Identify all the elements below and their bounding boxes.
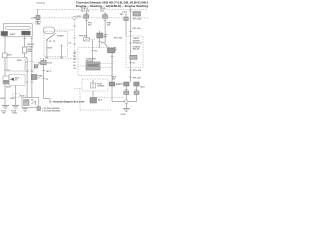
wire into fuse A [85,12,87,15]
starter assembly box [22,98,39,108]
svg-text:SW: SW [103,36,106,38]
relay dashed outputs [100,63,112,65]
ignition run wire column [43,59,45,99]
svg-text:LINK: LINK [31,17,36,19]
fuse TBC drop [125,13,127,36]
ground G102 [12,104,19,106]
battery symbol [6,26,31,29]
splice circle G [125,100,129,104]
dashed wires from PCM [79,91,81,110]
fuse A body [84,15,89,18]
svg-text:BLK: BLK [1,98,6,100]
relay coil wire in [92,40,94,62]
svg-text:YEL 5: YEL 5 [46,71,53,73]
connector box right top [133,12,141,17]
solenoid coil [24,100,30,106]
splice S235 [73,16,76,19]
inline connector gray [41,61,46,65]
switch exit wires [46,41,48,59]
wire: engine block ground leg [15,86,17,106]
svg-text:= W/ GAS ENGINE: = W/ GAS ENGINE [42,109,61,112]
ignition switch box [44,32,68,57]
bus: dashed hot-in-start line B [40,17,148,19]
ground G103 [123,107,130,109]
connector blob: clutch switch [99,31,101,34]
fuse IGN E label [100,8,106,12]
dashed box: theft deterrent module [126,36,143,68]
wire into fuse B [104,12,106,15]
key cylinder [44,27,55,34]
svg-text:easyautodiagnostics.com: easyautodiagnostics.com [53,100,85,104]
wire splice to ground [125,103,127,108]
junction block negative [3,53,8,58]
wire: battery feed to fusible link [37,9,39,15]
svg-text:PPL 806: PPL 806 [133,28,142,30]
svg-text:PPL 806: PPL 806 [133,77,142,79]
connector on starter ground wire [109,82,115,86]
svg-text:RED: RED [17,60,22,62]
dashed box: underhood fuse block [78,48,113,76]
PCM driver [92,80,94,88]
dashed box: PCM [82,79,108,91]
dashed wire: splice drop [74,20,76,59]
junction block box 1 [7,58,25,71]
svg-text:C100: C100 [47,62,53,64]
fuse B body [103,15,108,18]
cable ticks lower [26,81,29,83]
tick on right column [129,69,132,71]
fuse STRTR label [81,8,90,12]
bottom-right twin connectors [124,82,129,86]
svg-text:BLK: BLK [8,54,13,56]
wire bend to arrow [44,98,51,100]
svg-text:START: START [57,35,65,38]
svg-text:PPL 806: PPL 806 [133,70,142,72]
note legend [37,107,41,111]
battery positive terminal [21,31,30,35]
connector gray on x113 [108,48,116,53]
relay box inside module [130,55,137,59]
svg-text:RLY 30A: RLY 30A [81,9,90,12]
connector ticks right column [129,31,132,33]
wire: battery positive cable [24,35,26,47]
bus: dashed hot line A [36,8,148,10]
PCM ground leg [92,91,94,98]
wire from clutch switch down [99,38,101,48]
battery box [4,24,33,37]
svg-text:PNP SW: PNP SW [79,35,87,37]
right column main wire [130,8,132,82]
ground G101 [2,104,9,106]
svg-text:Chevrolet Silverado 2500 HD LT: Chevrolet Silverado 2500 HD LT 6.6L DSL … [76,0,149,4]
svg-text:RELAY: RELAY [133,48,140,51]
switch arm [47,34,56,40]
svg-text:CRANK: CRANK [97,84,105,87]
arrow marker [10,78,14,82]
wire: fuse to starter jog [24,53,26,57]
svg-text:BLK: BLK [11,98,16,100]
svg-text:C100: C100 [122,12,128,14]
svg-text:C100: C100 [35,24,41,26]
svg-text:BATT: BATT [10,33,16,36]
svg-text:Starting: Starting [37,1,46,4]
svg-text:BLK: BLK [116,84,121,86]
inline connector dashed [13,94,20,97]
svg-text:10A: 10A [100,9,104,12]
wire: to ground G101 [4,84,6,105]
svg-text:BLK: BLK [6,86,11,88]
dashed link key to column [55,29,75,31]
title text [76,0,149,8]
connector tab [34,65,38,68]
svg-text:ENG: ENG [13,113,18,115]
solenoid contacts [32,99,34,101]
svg-text:RUN: RUN [48,47,53,49]
svg-text:PPL 806: PPL 806 [114,38,123,40]
ground strap component [3,76,9,84]
junction block box 2 [9,74,25,85]
svg-text:BLK: BLK [98,99,103,101]
wire out of fuse A [85,18,87,37]
svg-text:BLK: BLK [141,86,146,88]
ground under starter [24,108,26,109]
mega fuse [22,47,27,53]
tick lower right column [129,76,132,78]
dashed connector line below switch [40,58,77,60]
svg-text:S235: S235 [77,16,83,18]
svg-text:G103: G103 [121,114,127,116]
inline component on cable B [31,75,37,80]
wire pair to junction [125,86,127,102]
wire: battery positive second cable [31,37,33,98]
dashed connector box on starter cables [25,62,34,70]
switch contacts [46,40,47,41]
svg-text:MODULE: MODULE [133,42,143,44]
wire x113 down [111,53,113,102]
battery negative terminal [1,31,8,36]
pin list text [74,53,78,70]
wire: negative cable down [4,57,6,76]
cable ticks below connector [26,71,29,73]
wire: battery negative cable [4,36,6,53]
fusible link A [36,15,40,19]
wire out of fuse B [104,18,106,44]
svg-text:PPL 806: PPL 806 [133,19,142,21]
starter relay [86,62,100,70]
junction bar [112,101,136,103]
svg-text:TBC: TBC [120,14,125,16]
